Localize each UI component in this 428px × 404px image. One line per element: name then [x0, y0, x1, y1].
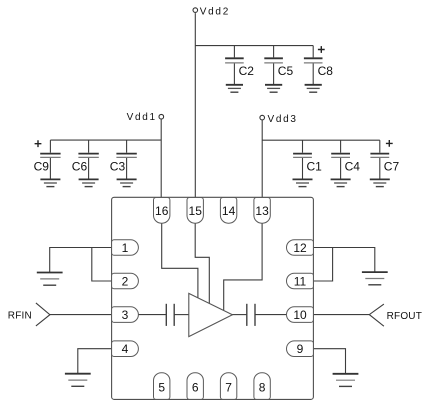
wire pin3 to input cap [138, 314, 166, 316]
wire pin9 to ground [313, 349, 345, 374]
svg-text:C6: C6 [72, 160, 88, 174]
node Vdd1 terminal [159, 114, 164, 119]
polarity plus for C9 [35, 140, 42, 147]
IC package body U1 [112, 197, 314, 399]
svg-text:16: 16 [155, 204, 169, 218]
wire pin2 up to pin1 net [92, 248, 112, 282]
svg-text:5: 5 [158, 381, 165, 395]
wire pin12 to ground [313, 248, 374, 272]
wire pin4 to ground [78, 349, 112, 374]
ground for C5 [265, 85, 282, 92]
svg-text:1: 1 [122, 241, 129, 255]
wire pin15 internal to amp hypotenuse [195, 223, 209, 303]
wire Vdd2 bypass bus [195, 45, 313, 47]
wire Vdd1 bypass bus [50, 139, 161, 141]
pin 14 [220, 198, 236, 224]
capacitor C5 [264, 46, 293, 85]
wire pin1 to ground [50, 248, 112, 273]
ground for C4 [331, 179, 351, 186]
svg-text:C4: C4 [345, 160, 361, 174]
wire amp to output cap [232, 314, 246, 316]
ground for C9 [40, 179, 60, 186]
pin 16 [154, 198, 170, 224]
pin 4 [112, 341, 139, 357]
wire output cap to pin10 [255, 314, 287, 316]
node Vdd3 terminal [260, 115, 265, 120]
wire pin13 internal to amp hypotenuse [224, 223, 262, 310]
pin 15 [187, 198, 203, 224]
svg-text:4: 4 [122, 342, 129, 356]
wire RFIN to pin3 [50, 314, 112, 316]
ground for C3 [117, 179, 137, 186]
wire Vdd2 stem down to pin 15 [194, 13, 196, 197]
polarity plus for C7 [386, 140, 393, 147]
capacitor C7 [370, 140, 399, 179]
wire pin11 up to pin12 net [313, 248, 332, 282]
wire input cap to amp [174, 314, 189, 316]
svg-text:Vdd1: Vdd1 [127, 112, 157, 123]
svg-text:15: 15 [189, 204, 203, 218]
svg-text:RFIN: RFIN [8, 311, 32, 322]
capacitor input DC block [166, 304, 174, 326]
svg-text:12: 12 [293, 241, 307, 255]
pin 9 [287, 341, 314, 357]
op-amp U1 amplifier triangle [189, 293, 233, 336]
pin 7 [220, 373, 236, 400]
node RFIN port arrow [36, 303, 50, 326]
pin 10 [287, 307, 314, 323]
svg-text:7: 7 [225, 381, 232, 395]
svg-text:Vdd3: Vdd3 [268, 114, 298, 125]
ground for C7 [370, 179, 390, 186]
wire pin16 internal to amp hypotenuse [162, 223, 198, 298]
capacitor C3 [110, 140, 137, 179]
pin 6 [187, 373, 203, 400]
pin 8 [254, 373, 270, 400]
ground for C1 [293, 179, 313, 186]
ground for pin 9 [333, 374, 359, 387]
svg-text:C1: C1 [307, 160, 323, 174]
svg-text:C8: C8 [318, 64, 334, 78]
svg-text:11: 11 [294, 274, 307, 288]
capacitor output DC block [247, 304, 255, 326]
svg-text:8: 8 [259, 381, 266, 395]
svg-text:13: 13 [255, 204, 269, 218]
ground for C6 [79, 179, 99, 186]
svg-text:2: 2 [122, 274, 129, 288]
svg-text:9: 9 [297, 342, 304, 356]
pin 11 [287, 273, 314, 289]
pin 2 [112, 273, 139, 289]
capacitor C4 [331, 140, 360, 179]
pin 12 [287, 240, 314, 256]
pin 5 [154, 373, 170, 400]
capacitor C9 [34, 140, 61, 179]
capacitor C8 [304, 46, 333, 85]
wire Vdd3 stem down to pin 13 [261, 121, 263, 198]
polarity plus for C8 [318, 46, 325, 53]
node Vdd2 terminal [193, 8, 198, 13]
wire Vdd3 bypass bus [262, 139, 380, 141]
svg-text:C3: C3 [110, 160, 126, 174]
capacitor C2 [225, 46, 254, 85]
ground for C2 [226, 85, 243, 92]
capacitor C6 [72, 140, 99, 179]
ground for pin 4 [65, 374, 91, 387]
ground for pins 11-12 [362, 272, 388, 285]
ground for C8 [305, 85, 322, 92]
svg-text:6: 6 [192, 381, 199, 395]
svg-text:C9: C9 [34, 160, 50, 174]
svg-text:Vdd2: Vdd2 [200, 7, 230, 18]
pin 1 [112, 240, 139, 256]
wire Vdd1 stem down to pin 16 [160, 119, 162, 197]
svg-text:C5: C5 [278, 64, 294, 78]
svg-text:C7: C7 [384, 160, 400, 174]
svg-text:C2: C2 [239, 64, 255, 78]
pin 3 [112, 307, 139, 323]
pin 13 [254, 198, 270, 224]
node RFOUT port arrow [369, 304, 384, 326]
wire pin10 to RFOUT [313, 314, 369, 316]
svg-text:10: 10 [293, 308, 307, 322]
ground for pins 1-2 [37, 273, 63, 286]
svg-text:14: 14 [222, 204, 236, 218]
svg-text:RFOUT: RFOUT [387, 311, 422, 322]
capacitor C1 [293, 140, 322, 179]
svg-text:3: 3 [122, 308, 129, 322]
